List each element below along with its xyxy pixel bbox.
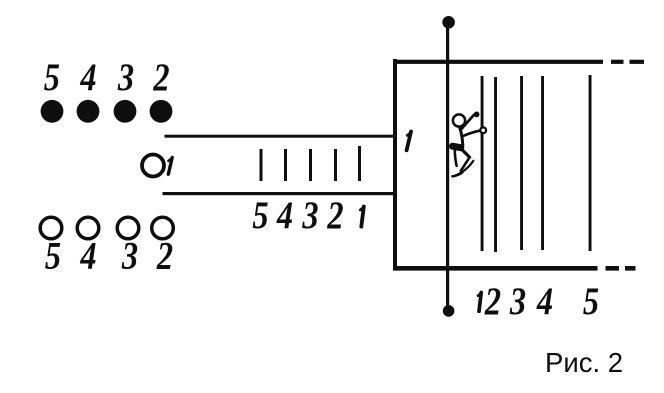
svg-text:3: 3 xyxy=(509,279,526,323)
lane line 5 xyxy=(589,75,592,251)
label 1 (server) xyxy=(168,158,172,175)
corridor top line xyxy=(165,135,396,138)
svg-text:4: 4 xyxy=(80,55,97,99)
label 1 (corridor) xyxy=(360,207,364,227)
open circle 4 (bottom row) xyxy=(77,217,99,239)
court left edge xyxy=(393,59,397,271)
court top edge dash 1 xyxy=(611,60,624,64)
svg-text:4: 4 xyxy=(536,279,553,323)
svg-text:3: 3 xyxy=(121,233,138,277)
svg-text:2: 2 xyxy=(327,193,344,237)
open circle 3 (bottom row) xyxy=(117,217,139,239)
label 1 (inside court) xyxy=(407,132,411,151)
svg-text:3: 3 xyxy=(117,55,134,99)
court bottom edge dash 2 xyxy=(625,266,636,271)
court bottom edge xyxy=(393,266,598,271)
net bottom dot xyxy=(443,305,455,317)
svg-text:2: 2 xyxy=(484,279,501,323)
filled circle 2 xyxy=(150,100,173,123)
svg-text:5: 5 xyxy=(583,279,599,323)
corridor bottom line xyxy=(163,192,396,195)
svg-text:3: 3 xyxy=(302,193,319,237)
lane line 4 xyxy=(541,76,544,250)
tick 2 xyxy=(334,149,337,181)
filled circle 3 xyxy=(114,100,137,123)
svg-text:2: 2 xyxy=(153,55,170,99)
label 1 (lane) xyxy=(478,293,481,312)
svg-text:5: 5 xyxy=(44,55,60,99)
svg-text:4: 4 xyxy=(276,193,293,237)
svg-text:2: 2 xyxy=(156,233,173,277)
svg-text:5: 5 xyxy=(252,193,268,237)
lane line 3 xyxy=(520,76,523,250)
filled circle 5 xyxy=(41,100,64,123)
net line vertical xyxy=(446,22,449,311)
court top edge dash 2 xyxy=(630,60,645,64)
court top edge xyxy=(393,60,603,64)
lane line 2 xyxy=(494,77,497,252)
svg-text:Рис. 2: Рис. 2 xyxy=(545,347,623,378)
climbing figure xyxy=(452,112,486,177)
lane line 1 xyxy=(481,76,484,251)
tick 1 xyxy=(358,146,361,181)
tick 4 xyxy=(284,149,287,181)
open circle 2 (bottom row) xyxy=(152,217,174,239)
tick 3 xyxy=(309,149,312,181)
open circle O (server) xyxy=(142,155,164,177)
net top dot xyxy=(442,16,455,29)
open circle 5 (bottom row) xyxy=(40,217,62,239)
svg-text:5: 5 xyxy=(45,233,61,277)
court bottom edge dash 1 xyxy=(606,266,620,271)
svg-text:4: 4 xyxy=(80,233,97,277)
tick 5 xyxy=(260,149,263,181)
filled circle 4 xyxy=(77,100,100,123)
